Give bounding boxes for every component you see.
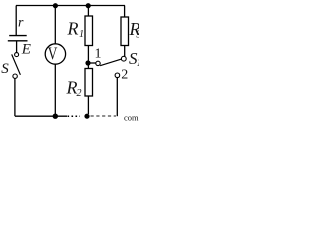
svg-text:1: 1 xyxy=(95,47,102,62)
svg-text:S: S xyxy=(1,61,9,77)
svg-text:1: 1 xyxy=(79,29,84,40)
svg-text:E: E xyxy=(21,41,31,57)
svg-text:V: V xyxy=(48,44,58,64)
svg-text:2: 2 xyxy=(77,88,82,99)
svg-text:r: r xyxy=(18,16,24,31)
svg-text:3: 3 xyxy=(136,30,140,41)
svg-text:com: com xyxy=(124,113,139,123)
svg-text:2: 2 xyxy=(121,68,128,83)
svg-text:R: R xyxy=(67,19,79,39)
svg-text:1: 1 xyxy=(137,58,139,69)
